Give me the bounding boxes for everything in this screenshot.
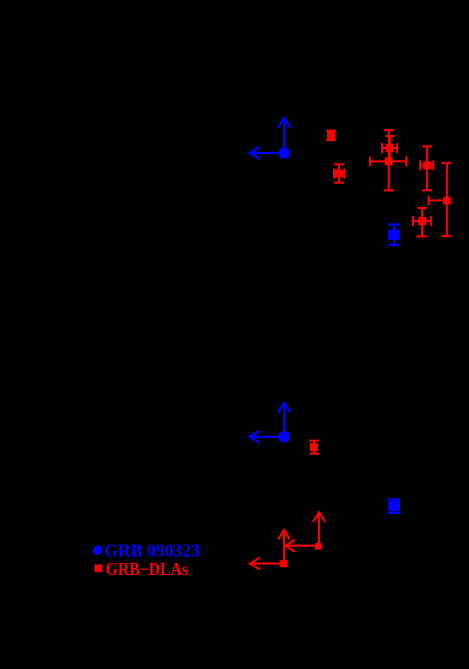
svg-text:GRB 090323: GRB 090323 bbox=[104, 540, 200, 560]
legend marker GRB 090323 (blue circle) bbox=[93, 545, 103, 555]
node red-limit-a (red square with up+left limit arrows) bbox=[250, 530, 290, 570]
node red-limit-b (red square with up+left limit arrows) bbox=[286, 512, 326, 551]
node blue-sq-lower (blue square with bottom cap, lower panel) bbox=[388, 498, 401, 513]
svg-text:GRB−DLAs: GRB−DLAs bbox=[106, 559, 189, 579]
node red-p7 (square, long vertical bar, left-side x bar) bbox=[429, 163, 452, 236]
node red-p3 (red square with small x/y error bars) bbox=[334, 164, 344, 182]
node red-p8 (square with x/y error bars, long lower bar) bbox=[413, 208, 431, 236]
node blue-sq-upper (blue square with vertical error bar) bbox=[388, 225, 400, 246]
node red-p11 (red square, small vertical error bar, lower panel) bbox=[309, 441, 319, 454]
node blue-limit-upper (GRB 090323 upper panel: circle with up+left limit arrows) bbox=[250, 118, 291, 159]
node red-p2 (red square, small vertical error bar) bbox=[326, 131, 336, 140]
node blue-limit-lower (GRB 090323 lower panel: circle with up+left limit arrows) bbox=[250, 403, 291, 443]
node red-p4 (upper of stacked pair, x error bar, top cap) bbox=[382, 136, 397, 158]
legend marker GRB-DLAs (red square) bbox=[95, 564, 103, 572]
node red-p5 (lower of stacked pair, long x and y error bars) bbox=[370, 130, 407, 190]
node red-p6 (square with medium x/y error bars) bbox=[420, 146, 433, 190]
